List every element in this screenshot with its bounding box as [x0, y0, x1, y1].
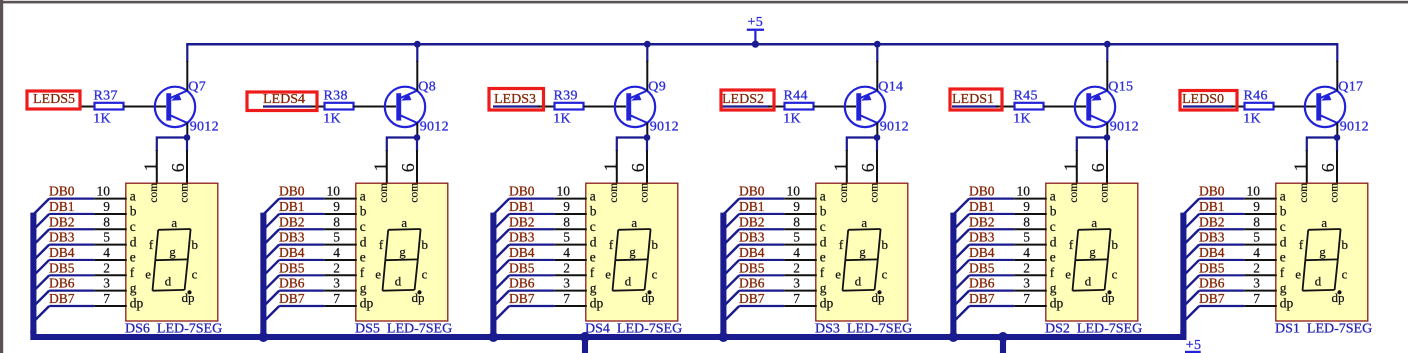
svg-text:DS2 LED-7SEG: DS2 LED-7SEG: [1045, 321, 1142, 336]
bus entry DB4: [264, 260, 279, 275]
bus entry DB6: [1184, 291, 1199, 306]
svg-text:a: a: [1050, 188, 1056, 203]
power +5 (bottom): [1185, 338, 1201, 353]
wire DB0: [49, 198, 94, 200]
svg-text:b: b: [881, 237, 888, 252]
bus junction at x=953.4: [948, 332, 958, 342]
svg-text:8: 8: [793, 214, 800, 229]
junction collector node: [874, 134, 881, 141]
pin DB1 to DS6: [94, 213, 127, 215]
svg-text:DB1: DB1: [1199, 199, 1225, 214]
transistor Q17 9012 (PNP): [1305, 79, 1369, 134]
bus vertical DS1: [1180, 213, 1186, 335]
bus entry DB0: [34, 199, 49, 214]
junction collector node: [184, 134, 191, 141]
wire Q14 emitter to +5 rail: [876, 44, 878, 62]
svg-text:6: 6: [168, 163, 188, 172]
svg-text:2: 2: [1253, 260, 1260, 275]
svg-text:8: 8: [1253, 214, 1260, 229]
wire +5 rail: [186, 43, 1338, 46]
svg-text:4: 4: [793, 245, 800, 260]
wire DB1: [279, 213, 324, 215]
bus entry DB1: [954, 214, 969, 229]
wire Q17 emitter to +5 rail: [1336, 44, 1338, 62]
bus entry DB3: [1184, 245, 1199, 260]
svg-text:b: b: [360, 204, 367, 219]
bus entry DB7: [724, 306, 739, 321]
svg-text:g: g: [629, 244, 636, 259]
wire DB4: [739, 259, 784, 261]
svg-text:f: f: [379, 237, 384, 252]
svg-text:DB2: DB2: [509, 214, 535, 229]
bus vertical DS3: [720, 213, 726, 335]
junction collector node: [1104, 134, 1111, 141]
transistor Q9 9012 (PNP): [615, 79, 679, 134]
svg-text:9012: 9012: [420, 119, 449, 134]
pin DB7 to DS3: [784, 305, 817, 307]
pin DB1 to DS2: [1014, 213, 1047, 215]
svg-text:9: 9: [103, 199, 110, 214]
svg-text:9: 9: [793, 199, 800, 214]
pin DB3 to DS6: [94, 244, 127, 246]
svg-text:8: 8: [1023, 214, 1030, 229]
bus entry DB7: [494, 306, 509, 321]
svg-text:g: g: [360, 280, 367, 295]
transistor Q14 9012 (PNP): [845, 79, 909, 134]
svg-text:DB1: DB1: [509, 199, 535, 214]
sheet border top: [0, 1, 1408, 4]
svg-text:c: c: [1280, 219, 1286, 234]
svg-text:b: b: [1341, 237, 1348, 252]
wire DB6: [1199, 290, 1244, 292]
resistor R45 1K: [1013, 88, 1043, 126]
svg-text:DB3: DB3: [509, 230, 535, 245]
svg-text:g: g: [820, 280, 827, 295]
wire DB5: [739, 274, 784, 276]
svg-text:DB1: DB1: [739, 199, 765, 214]
svg-text:DB5: DB5: [49, 260, 75, 275]
bus entry DB5: [494, 275, 509, 290]
wire R45 to Q15 base: [1044, 106, 1087, 108]
resistor R46 1K: [1243, 88, 1273, 126]
pin DB2 to DS6: [94, 228, 127, 230]
svg-text:1K: 1K: [783, 112, 801, 127]
wire Q7 collector: [186, 123, 188, 138]
bus junction at x=493.4: [488, 332, 498, 342]
svg-text:DB6: DB6: [279, 276, 305, 291]
svg-text:e: e: [820, 250, 826, 265]
svg-text:e: e: [130, 250, 136, 265]
svg-text:4: 4: [1023, 245, 1030, 260]
red highlight box around LEDS0: [1180, 91, 1237, 111]
svg-text:b: b: [1111, 237, 1118, 252]
svg-text:c: c: [130, 219, 136, 234]
bus entry DB4: [954, 260, 969, 275]
bus entry DB2: [954, 229, 969, 244]
svg-text:e: e: [1050, 250, 1056, 265]
svg-text:e: e: [605, 267, 611, 282]
svg-text:LEDS4: LEDS4: [263, 92, 305, 107]
pin DB3 to DS4: [554, 244, 587, 246]
bus entry DB7: [954, 306, 969, 321]
svg-text:DB1: DB1: [49, 199, 75, 214]
svg-text:b: b: [1280, 204, 1287, 219]
pin DB7 to DS5: [324, 305, 357, 307]
svg-text:DB7: DB7: [509, 291, 535, 306]
svg-text:3: 3: [563, 276, 570, 291]
transistor Q15 9012 (PNP): [1075, 79, 1139, 134]
svg-text:g: g: [169, 244, 176, 259]
junction rail/Q drop 2: [414, 41, 421, 48]
pin DB0 to DS5: [324, 198, 357, 200]
wire R39 to Q9 base: [584, 106, 627, 108]
svg-text:d: d: [1085, 273, 1092, 288]
pin DB1 to DS5: [324, 213, 357, 215]
svg-text:dp: dp: [130, 296, 144, 311]
svg-text:2: 2: [563, 260, 570, 275]
svg-text:LEDS3: LEDS3: [494, 92, 536, 107]
wire DB2: [509, 228, 554, 230]
wire DB4: [509, 259, 554, 261]
wire DB4: [49, 259, 94, 261]
svg-text:DB5: DB5: [279, 260, 305, 275]
svg-text:d: d: [625, 273, 632, 288]
svg-text:DB0: DB0: [1199, 184, 1225, 199]
svg-text:2: 2: [333, 260, 340, 275]
svg-text:g: g: [1050, 280, 1057, 295]
svg-text:dp: dp: [1332, 290, 1345, 305]
junction rail/Q drop 4: [874, 41, 881, 48]
svg-text:d: d: [395, 273, 402, 288]
svg-text:e: e: [590, 250, 596, 265]
svg-text:9012: 9012: [1110, 119, 1139, 134]
svg-text:9: 9: [1253, 199, 1260, 214]
svg-text:5: 5: [1253, 230, 1260, 245]
svg-text:DB6: DB6: [739, 276, 765, 291]
svg-text:R38: R38: [324, 88, 348, 103]
svg-text:f: f: [1069, 237, 1074, 252]
svg-text:DB7: DB7: [969, 291, 995, 306]
svg-text:DB1: DB1: [969, 199, 995, 214]
svg-text:6: 6: [1088, 163, 1108, 172]
wire DB5: [969, 274, 1014, 276]
svg-text:d: d: [1280, 234, 1287, 249]
wire DB5: [509, 274, 554, 276]
svg-text:f: f: [590, 265, 595, 280]
svg-text:10: 10: [1247, 184, 1261, 199]
bus entry DB3: [494, 245, 509, 260]
wire LEDS0 net: [1183, 105, 1233, 107]
svg-text:4: 4: [1253, 245, 1260, 260]
svg-text:Q17: Q17: [1338, 79, 1363, 94]
svg-text:1K: 1K: [93, 112, 111, 127]
svg-text:+5: +5: [748, 15, 764, 30]
svg-text:b: b: [130, 204, 137, 219]
svg-text:f: f: [360, 265, 365, 280]
svg-text:DB1: DB1: [279, 199, 305, 214]
svg-text:2: 2: [793, 260, 800, 275]
svg-text:DB4: DB4: [49, 245, 75, 260]
svg-text:com: com: [1099, 183, 1111, 203]
svg-text:f: f: [609, 237, 614, 252]
svg-text:1: 1: [371, 162, 391, 171]
svg-text:5: 5: [1023, 230, 1030, 245]
svg-text:DB4: DB4: [739, 245, 765, 260]
bus entry DB2: [264, 229, 279, 244]
wire DB2: [969, 228, 1014, 230]
svg-text:1K: 1K: [553, 112, 571, 127]
bus entry DB6: [264, 291, 279, 306]
wire DB6: [969, 290, 1014, 292]
wire DB3: [49, 244, 94, 246]
sheet border left: [0, 0, 3, 353]
svg-text:7: 7: [793, 291, 800, 306]
svg-text:g: g: [1089, 244, 1096, 259]
svg-text:d: d: [165, 273, 172, 288]
pin DB2 to DS2: [1014, 228, 1047, 230]
wire DB3: [1199, 244, 1244, 246]
svg-text:1K: 1K: [1013, 112, 1031, 127]
svg-text:a: a: [1280, 188, 1286, 203]
wire collector to DS5 pin 1: [387, 138, 417, 152]
svg-text:3: 3: [333, 276, 340, 291]
svg-text:g: g: [1319, 244, 1326, 259]
pin DB7 to DS6: [94, 305, 127, 307]
bus entry DB6: [954, 291, 969, 306]
pin DB0 to DS6: [94, 198, 127, 200]
bus entry DB5: [264, 275, 279, 290]
svg-text:com: com: [1298, 183, 1310, 203]
pin DB1 to DS4: [554, 213, 587, 215]
svg-text:DS1 LED-7SEG: DS1 LED-7SEG: [1275, 321, 1372, 336]
svg-text:DB5: DB5: [739, 260, 765, 275]
svg-text:DB3: DB3: [279, 230, 305, 245]
wire Q15 collector: [1106, 123, 1108, 138]
wire DB5: [1199, 274, 1244, 276]
svg-text:g: g: [859, 244, 866, 259]
wire collector to DS3 pin 1: [847, 138, 877, 152]
svg-text:c: c: [590, 219, 596, 234]
svg-text:dp: dp: [1050, 296, 1064, 311]
pin DB6 to DS2: [1014, 290, 1047, 292]
svg-text:2: 2: [103, 260, 110, 275]
svg-text:DB3: DB3: [49, 230, 75, 245]
svg-text:a: a: [590, 188, 596, 203]
pin DB7 to DS4: [554, 305, 587, 307]
junction rail/Q drop 3: [644, 41, 651, 48]
wire DB7: [49, 305, 94, 307]
svg-text:DB2: DB2: [1199, 214, 1225, 229]
wire DB2: [49, 228, 94, 230]
bus entry DB6: [34, 291, 49, 306]
wire collector to DS6 pin 6: [186, 138, 188, 152]
pin DB4 to DS3: [784, 259, 817, 261]
resistor R38 1K: [323, 88, 353, 126]
wire collector to DS4 pin 6: [646, 138, 648, 152]
7-segment display DS2 LED-7SEG: [1045, 183, 1142, 337]
pin DB5 to DS6: [94, 274, 127, 276]
wire DB4: [279, 259, 324, 261]
svg-text:com: com: [869, 183, 881, 203]
svg-text:f: f: [820, 265, 825, 280]
svg-text:d: d: [360, 234, 367, 249]
svg-text:b: b: [1050, 204, 1057, 219]
wire collector to DS3 pin 6: [876, 138, 878, 152]
wire DB0: [969, 198, 1014, 200]
svg-text:8: 8: [333, 214, 340, 229]
7-segment display DS4 LED-7SEG: [585, 183, 682, 337]
svg-text:a: a: [1321, 215, 1327, 230]
bus entry DB4: [34, 260, 49, 275]
wire LEDS3 net: [493, 105, 540, 107]
svg-text:2: 2: [1023, 260, 1030, 275]
pin DB2 to DS3: [784, 228, 817, 230]
svg-text:5: 5: [333, 230, 340, 245]
svg-text:1K: 1K: [323, 112, 341, 127]
pin DB6 to DS5: [324, 290, 357, 292]
wire collector to DS4 pin 1: [617, 138, 647, 152]
svg-text:d: d: [1050, 234, 1057, 249]
wire DB2: [739, 228, 784, 230]
junction collector node: [1334, 134, 1341, 141]
svg-text:com: com: [148, 183, 160, 203]
svg-text:9: 9: [563, 199, 570, 214]
svg-text:9012: 9012: [190, 119, 219, 134]
pin DB5 to DS5: [324, 274, 357, 276]
bus entry DB1: [264, 214, 279, 229]
pin DB0 to DS3: [784, 198, 817, 200]
svg-text:7: 7: [333, 291, 340, 306]
svg-text:LEDS1: LEDS1: [952, 92, 994, 107]
svg-text:e: e: [835, 267, 841, 282]
bus vertical DS2: [950, 213, 956, 335]
svg-text:b: b: [191, 237, 198, 252]
svg-text:9012: 9012: [650, 119, 679, 134]
7-segment display DS6 LED-7SEG: [125, 183, 222, 337]
svg-text:Q7: Q7: [188, 79, 206, 94]
svg-text:R44: R44: [784, 88, 808, 103]
svg-text:dp: dp: [872, 290, 885, 305]
wire DB7: [509, 305, 554, 307]
svg-text:9: 9: [1023, 199, 1030, 214]
svg-text:R37: R37: [94, 88, 118, 103]
svg-text:d: d: [1315, 273, 1322, 288]
svg-text:DB7: DB7: [279, 291, 305, 306]
svg-text:1: 1: [601, 162, 621, 171]
wire Q8 collector: [416, 123, 418, 138]
svg-text:e: e: [1065, 267, 1071, 282]
svg-text:7: 7: [563, 291, 570, 306]
pin DB2 to DS1: [1244, 228, 1277, 230]
bus entry DB5: [954, 275, 969, 290]
svg-text:com: com: [1329, 183, 1341, 203]
svg-text:e: e: [375, 267, 381, 282]
svg-text:9012: 9012: [1340, 119, 1369, 134]
wire DB1: [969, 213, 1014, 215]
wire DB2: [1199, 228, 1244, 230]
wire DB0: [739, 198, 784, 200]
wire collector to DS2 pin 1: [1077, 138, 1107, 152]
pin DB4 to DS5: [324, 259, 357, 261]
svg-text:10: 10: [1017, 184, 1031, 199]
svg-text:a: a: [631, 215, 637, 230]
svg-text:DB6: DB6: [49, 276, 75, 291]
svg-text:DB2: DB2: [49, 214, 75, 229]
resistor R37 1K: [93, 88, 123, 126]
svg-text:com: com: [378, 183, 390, 203]
wire DB6: [279, 290, 324, 292]
svg-text:a: a: [360, 188, 366, 203]
wire Q15 emitter to +5 rail: [1106, 44, 1108, 62]
svg-text:DB0: DB0: [509, 184, 535, 199]
svg-text:DB5: DB5: [509, 260, 535, 275]
wire Q7 emitter to +5 rail: [186, 44, 188, 62]
svg-text:b: b: [651, 237, 658, 252]
bus entry DB0: [724, 199, 739, 214]
svg-text:e: e: [1295, 267, 1301, 282]
7-segment display DS3 LED-7SEG: [815, 183, 912, 337]
svg-text:1: 1: [1061, 162, 1081, 171]
svg-text:DB3: DB3: [739, 230, 765, 245]
svg-text:dp: dp: [412, 290, 425, 305]
svg-text:Q9: Q9: [648, 79, 666, 94]
svg-text:LEDS0: LEDS0: [1182, 92, 1224, 107]
bus vertical DS5: [260, 213, 266, 335]
svg-text:c: c: [422, 267, 428, 282]
pin DB7 to DS1: [1244, 305, 1277, 307]
bus entry DB7: [1184, 306, 1199, 321]
wire LEDS0 to R46 pin: [1231, 106, 1246, 108]
svg-text:DB7: DB7: [1199, 291, 1225, 306]
svg-text:DB0: DB0: [969, 184, 995, 199]
bus stub down 2: [1000, 337, 1006, 353]
svg-text:dp: dp: [1102, 290, 1115, 305]
pin DB4 to DS4: [554, 259, 587, 261]
wire Q17 collector: [1336, 123, 1338, 138]
svg-text:a: a: [820, 188, 826, 203]
svg-text:DB2: DB2: [279, 214, 305, 229]
bus entry DB4: [494, 260, 509, 275]
wire DB2: [279, 228, 324, 230]
wire R37 to Q7 base: [124, 106, 167, 108]
transistor Q7 9012 (PNP): [155, 79, 219, 134]
bus entry DB5: [34, 275, 49, 290]
wire DB1: [49, 213, 94, 215]
svg-text:d: d: [820, 234, 827, 249]
junction collector node: [644, 134, 651, 141]
wire collector to DS5 pin 6: [416, 138, 418, 152]
wire DB1: [1199, 213, 1244, 215]
svg-text:DB4: DB4: [969, 245, 995, 260]
svg-text:c: c: [1342, 267, 1348, 282]
bus bottom horizontal: [33, 330, 1183, 337]
pin DB0 to DS1: [1244, 198, 1277, 200]
svg-text:5: 5: [793, 230, 800, 245]
wire DB6: [509, 290, 554, 292]
svg-text:1: 1: [831, 162, 851, 171]
svg-text:DB5: DB5: [969, 260, 995, 275]
pin DB2 to DS5: [324, 228, 357, 230]
svg-text:Q15: Q15: [1108, 79, 1133, 94]
pin DB4 to DS1: [1244, 259, 1277, 261]
svg-text:com: com: [1068, 183, 1080, 203]
wire DB3: [279, 244, 324, 246]
bus entry DB1: [724, 214, 739, 229]
svg-text:a: a: [861, 215, 867, 230]
svg-text:5: 5: [103, 230, 110, 245]
wire Q8 emitter to +5 rail: [416, 44, 418, 62]
svg-text:DB2: DB2: [969, 214, 995, 229]
